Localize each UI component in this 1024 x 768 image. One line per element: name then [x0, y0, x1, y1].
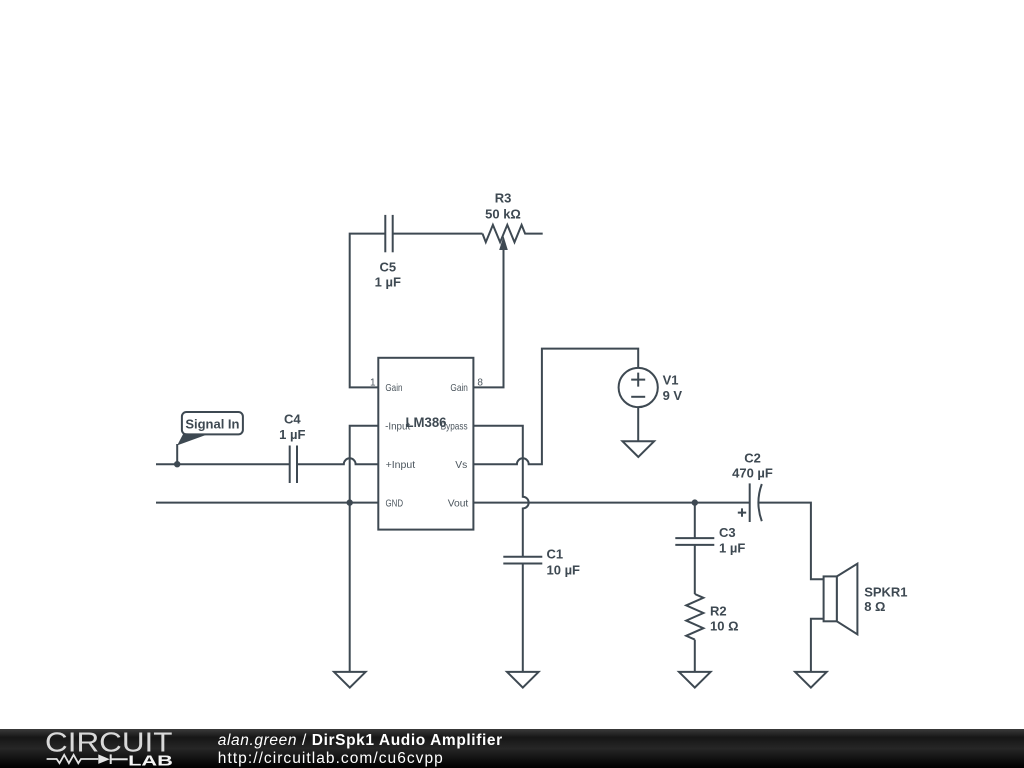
- wire: +Input left segment: [156, 463, 290, 465]
- capacitor C1: [503, 557, 542, 564]
- svg-text:LAB: LAB: [128, 753, 173, 768]
- svg-text:R3: R3: [495, 190, 512, 205]
- logo diode: [98, 754, 110, 764]
- node junction Vout/C3: [692, 499, 698, 505]
- wire: C2 to speaker: [758, 503, 823, 580]
- svg-text:+Input: +Input: [386, 459, 416, 471]
- resistor R2 zigzag: [686, 594, 703, 640]
- wire: Vs to V1 loop with hop: [473, 349, 638, 465]
- resistor R3 value label: [485, 190, 521, 221]
- speaker SPKR1: [824, 564, 858, 635]
- wire: Bypass loop down to C1 (hops over Vout wire): [473, 426, 528, 557]
- svg-text:SPKR1: SPKR1: [864, 585, 907, 600]
- svg-text:http://circuitlab.com/cu6cvpp: http://circuitlab.com/cu6cvpp: [218, 750, 444, 767]
- capacitor C5: [385, 215, 392, 252]
- svg-text:1 µF: 1 µF: [279, 427, 305, 442]
- wire: R2 to ground: [694, 640, 696, 672]
- wire: pin1 loop up to C5: [350, 234, 386, 388]
- svg-text:C5: C5: [379, 259, 396, 274]
- svg-text:Vs: Vs: [455, 459, 467, 471]
- svg-text:10 µF: 10 µF: [547, 563, 581, 578]
- wire: Vout row horizontal: [473, 502, 749, 504]
- svg-text:470 µF: 470 µF: [732, 465, 773, 480]
- svg-text:Gain: Gain: [450, 382, 468, 394]
- voltage source V1 label: [663, 373, 683, 404]
- wire: V1 to ground: [637, 407, 639, 441]
- op-amp U1 LM386 body: [378, 358, 473, 530]
- node junction at Signal In: [174, 461, 180, 467]
- svg-text:50 kΩ: 50 kΩ: [485, 206, 521, 221]
- logo resistor zigzag: [47, 755, 99, 763]
- resistor R2 value label: [710, 604, 739, 634]
- svg-text:1 µF: 1 µF: [375, 274, 401, 289]
- capacitor C2 value label: [732, 451, 773, 481]
- svg-text:Signal In: Signal In: [185, 416, 239, 431]
- op-amp U1 pin labels: [385, 382, 468, 509]
- wire: -Input loop down to ground: [350, 426, 379, 672]
- wire: GND row horizontal: [156, 502, 378, 504]
- svg-text:C2: C2: [744, 451, 761, 466]
- svg-text:GND: GND: [386, 497, 404, 509]
- capacitor C1 value label: [547, 547, 581, 578]
- wire: C5 to R3: [393, 233, 483, 235]
- svg-text:1 µF: 1 µF: [719, 541, 745, 556]
- svg-text:C1: C1: [547, 547, 564, 562]
- ground (C1): [507, 672, 539, 688]
- speaker SPKR1 label: [864, 585, 907, 615]
- svg-text:V1: V1: [663, 373, 679, 388]
- wire: C3 branch: [694, 503, 696, 538]
- svg-text:Vout: Vout: [448, 497, 469, 509]
- svg-text:R2: R2: [710, 604, 727, 619]
- svg-text:LM386: LM386: [406, 414, 447, 430]
- wire: C1 to ground: [522, 564, 524, 672]
- svg-text:10 Ω: 10 Ω: [710, 619, 739, 634]
- capacitor C3: [675, 538, 714, 545]
- svg-text:Gain: Gain: [385, 382, 402, 394]
- capacitor C4 value label: [279, 412, 305, 442]
- capacitor C2 (polarized): [738, 483, 762, 522]
- wire: +Input right segment with hop: [297, 458, 378, 464]
- svg-text:C4: C4: [284, 412, 301, 427]
- wire: C3 to R2: [694, 545, 696, 594]
- ground (speaker): [795, 672, 827, 688]
- capacitor C4: [290, 446, 297, 484]
- capacitor C3 value label: [719, 525, 745, 555]
- node Signal In callout: [177, 412, 243, 464]
- resistor R3 wiper arrow: [473, 236, 507, 387]
- footer bar: [0, 729, 1024, 768]
- svg-text:alan.green / DirSpk1 Audio Amp: alan.green / DirSpk1 Audio Amplifier: [218, 732, 503, 749]
- voltage source V1: [619, 368, 658, 407]
- ground (R2): [679, 672, 711, 688]
- resistor R3 (potentiometer) zigzag: [483, 225, 543, 242]
- capacitor C5 value label: [375, 259, 401, 289]
- ground (V1): [623, 441, 655, 457]
- ground (left, -Input/GND net): [334, 672, 366, 688]
- node junction on GND wire: [347, 499, 353, 505]
- svg-text:8 Ω: 8 Ω: [864, 599, 885, 614]
- wire: speaker to ground: [811, 619, 824, 672]
- svg-text:9 V: 9 V: [663, 388, 683, 403]
- svg-text:C3: C3: [719, 525, 736, 540]
